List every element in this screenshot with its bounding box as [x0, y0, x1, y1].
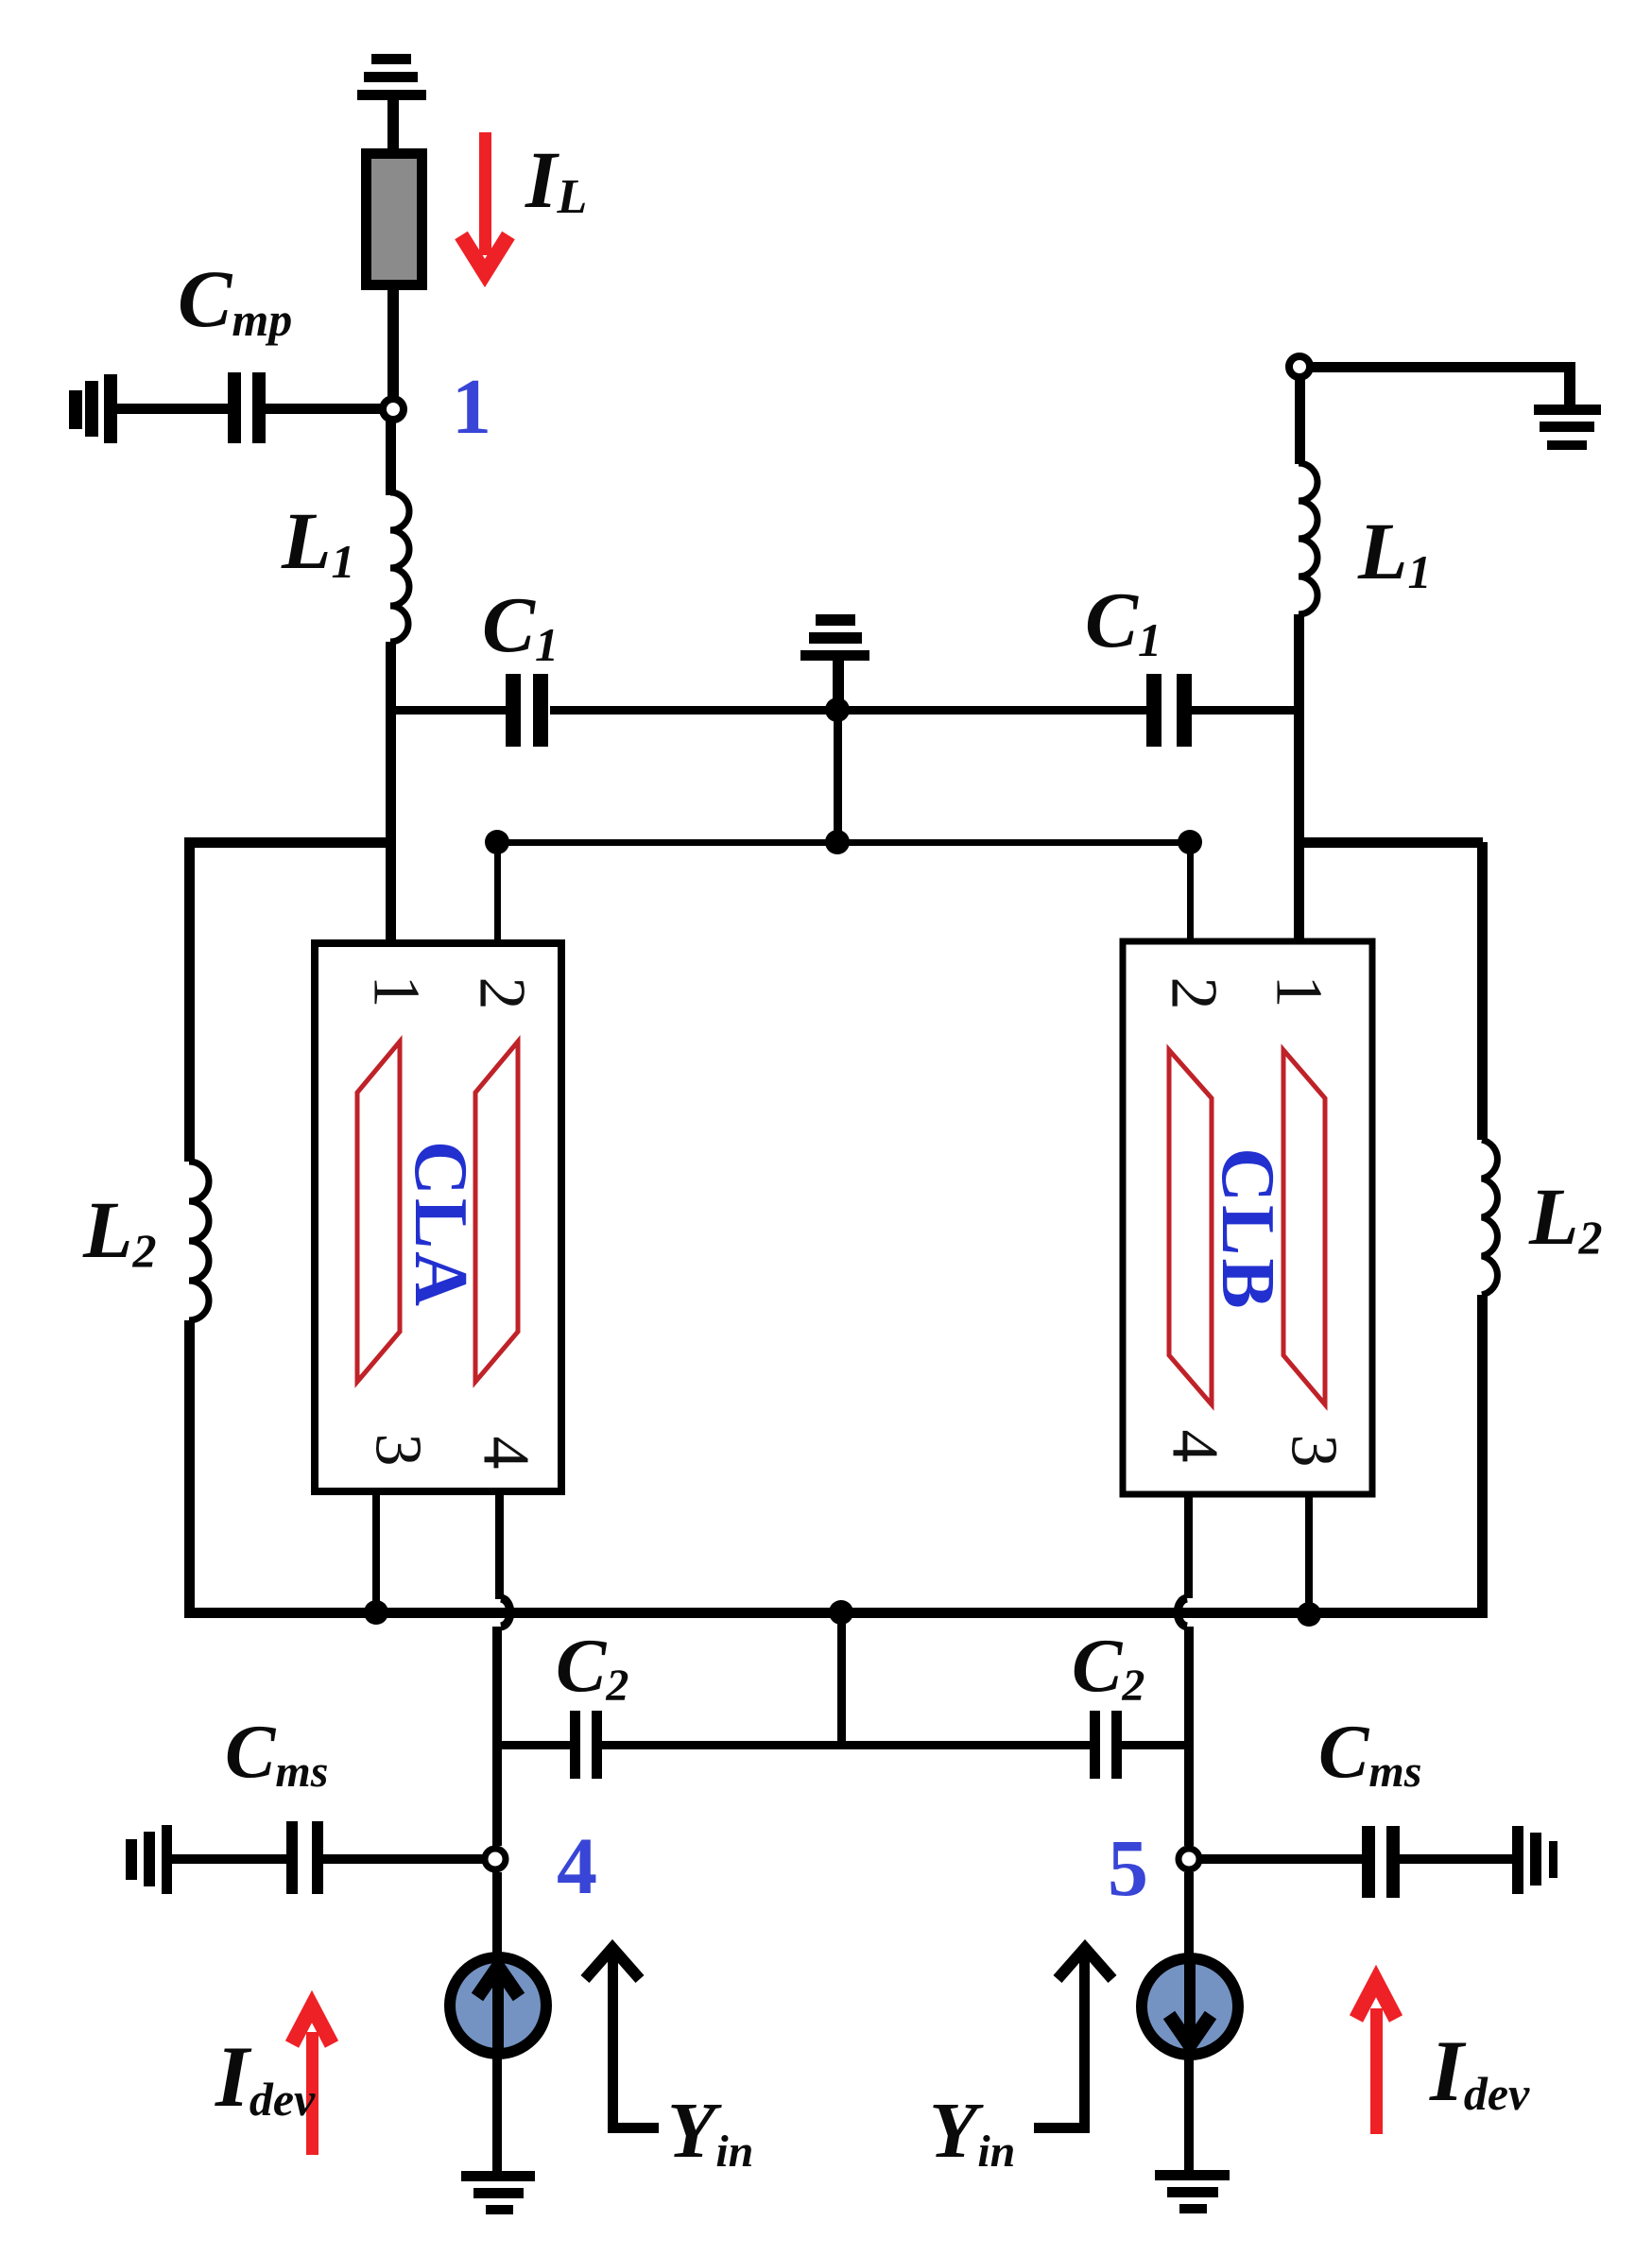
svg-text:Cmp: Cmp [178, 253, 292, 346]
svg-text:Idev: Idev [1429, 2023, 1530, 2120]
svg-text:CLA: CLA [399, 1141, 482, 1309]
svg-text:1: 1 [452, 363, 491, 451]
svg-text:4: 4 [557, 1820, 597, 1911]
svg-text:C2: C2 [556, 1625, 628, 1711]
svg-text:2: 2 [466, 977, 539, 1010]
svg-text:C1: C1 [1085, 577, 1162, 666]
svg-text:1: 1 [360, 975, 433, 1008]
svg-text:1: 1 [1263, 975, 1335, 1008]
svg-text:L1: L1 [281, 495, 355, 588]
svg-text:L2: L2 [82, 1184, 157, 1277]
svg-text:C2: C2 [1072, 1625, 1144, 1711]
svg-text:Cms: Cms [225, 1711, 328, 1797]
svg-text:CLB: CLB [1206, 1147, 1289, 1312]
svg-text:C1: C1 [482, 581, 559, 671]
svg-text:3: 3 [1278, 1435, 1351, 1468]
svg-text:L1: L1 [1357, 506, 1432, 598]
svg-text:5: 5 [1108, 1822, 1148, 1913]
svg-text:Cms: Cms [1318, 1711, 1421, 1797]
svg-text:Yin: Yin [929, 2087, 1015, 2177]
svg-text:IL: IL [525, 134, 587, 225]
svg-text:4: 4 [470, 1437, 542, 1470]
svg-text:Yin: Yin [667, 2087, 753, 2177]
svg-text:L2: L2 [1528, 1171, 1603, 1264]
svg-text:3: 3 [362, 1434, 435, 1467]
svg-text:4: 4 [1159, 1430, 1231, 1463]
svg-text:2: 2 [1158, 977, 1230, 1010]
